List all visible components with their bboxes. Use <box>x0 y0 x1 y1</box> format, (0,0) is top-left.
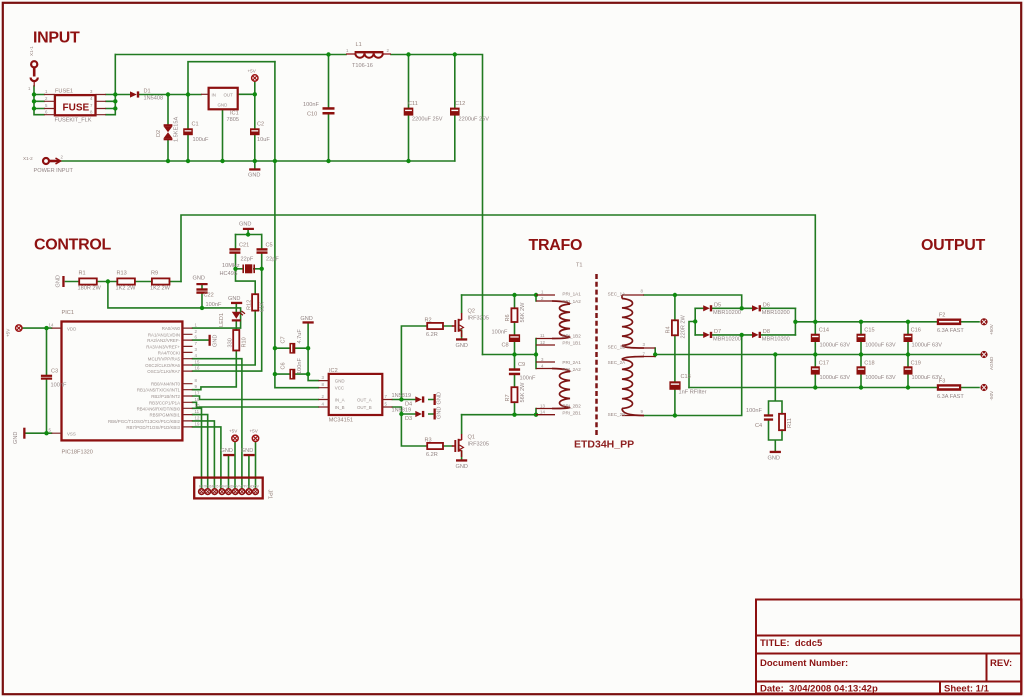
svg-text:220R 2W: 220R 2W <box>681 314 687 338</box>
svg-text:GND: GND <box>335 379 345 384</box>
svg-text:R4: R4 <box>666 326 672 333</box>
svg-text:+50V: +50V <box>989 323 994 335</box>
svg-text:PRI_1A1: PRI_1A1 <box>562 292 581 297</box>
svg-text:RB2/P1B/INT2: RB2/P1B/INT2 <box>151 394 180 399</box>
svg-text:Sheet: 1/1: Sheet: 1/1 <box>944 684 990 695</box>
svg-text:14: 14 <box>540 410 545 415</box>
svg-text:TRAFO: TRAFO <box>529 237 583 254</box>
svg-text:IN_B: IN_B <box>335 405 345 410</box>
svg-text:1K2 2W: 1K2 2W <box>116 285 137 291</box>
svg-text:12: 12 <box>195 415 200 420</box>
svg-text:C11: C11 <box>408 101 418 107</box>
svg-text:C18: C18 <box>864 361 874 367</box>
svg-text:FUSE: FUSE <box>63 103 90 114</box>
svg-text:SEC_1A: SEC_1A <box>608 292 627 297</box>
svg-text:6.3A FAST: 6.3A FAST <box>937 328 964 334</box>
svg-text:56K 2W: 56K 2W <box>520 302 526 323</box>
svg-text:PIC1: PIC1 <box>62 310 74 316</box>
svg-text:VDD: VDD <box>67 326 76 331</box>
svg-text:330: 330 <box>228 338 234 347</box>
svg-text:SEC_2B: SEC_2B <box>608 412 626 417</box>
svg-text:PRI_2B2: PRI_2B2 <box>562 403 581 408</box>
svg-text:1N5819: 1N5819 <box>392 393 412 399</box>
svg-text:AGND: AGND <box>989 356 994 370</box>
svg-text:RB4/AN6/RX/DT/KBI0: RB4/AN6/RX/DT/KBI0 <box>137 406 181 411</box>
svg-text:FUSE1: FUSE1 <box>55 89 73 95</box>
svg-text:IN: IN <box>212 92 216 97</box>
svg-text:100nF: 100nF <box>297 358 303 374</box>
svg-text:RB3/CCP1/P1A: RB3/CCP1/P1A <box>149 400 180 405</box>
svg-text:OUTPUT: OUTPUT <box>921 237 986 254</box>
svg-text:R10: R10 <box>242 337 248 347</box>
svg-text:R9: R9 <box>151 271 158 277</box>
svg-text:19: 19 <box>195 421 200 426</box>
svg-text:C4: C4 <box>755 423 762 429</box>
svg-text:FUSEKIT_FLK: FUSEKIT_FLK <box>55 118 92 124</box>
svg-text:F2: F2 <box>939 313 946 319</box>
svg-text:ETD34H_PP: ETD34H_PP <box>574 439 634 451</box>
svg-text:IC2: IC2 <box>329 368 338 374</box>
svg-text:7805: 7805 <box>227 117 239 123</box>
svg-text:POWER INPUT: POWER INPUT <box>34 168 74 174</box>
svg-text:RB5: RB5 <box>212 485 219 489</box>
svg-text:1N5819: 1N5819 <box>392 408 412 414</box>
svg-text:GND: GND <box>56 275 62 287</box>
svg-text:C22: C22 <box>204 293 214 299</box>
svg-text:GND: GND <box>456 464 468 470</box>
svg-text:GND: GND <box>456 343 468 349</box>
svg-text:Date: 3/04/2008 04:13:42p: Date: 3/04/2008 04:13:42p <box>760 684 878 695</box>
svg-text:OUT_A: OUT_A <box>357 398 372 403</box>
svg-text:4.7uF: 4.7uF <box>297 329 303 344</box>
svg-text:RA4/T0CKI: RA4/T0CKI <box>158 350 180 355</box>
svg-text:GND: GND <box>218 103 228 108</box>
svg-text:22pF: 22pF <box>266 257 279 263</box>
svg-text:1N5408: 1N5408 <box>144 96 164 102</box>
svg-text:MBR10200: MBR10200 <box>713 310 741 316</box>
svg-text:L1: L1 <box>356 42 362 48</box>
svg-text:C10: C10 <box>307 112 317 118</box>
svg-text:16: 16 <box>195 366 200 371</box>
svg-text:10MHz: 10MHz <box>222 263 240 269</box>
svg-text:GND: GND <box>239 222 251 228</box>
svg-text:Document Number:: Document Number: <box>760 658 848 669</box>
svg-text:R7: R7 <box>505 394 511 401</box>
svg-text:PRI_1A2: PRI_1A2 <box>562 299 581 304</box>
svg-text:RB6: RB6 <box>205 485 212 489</box>
svg-text:13: 13 <box>540 403 545 408</box>
svg-text:T106-16: T106-16 <box>352 63 373 69</box>
svg-text:GND: GND <box>768 456 780 462</box>
svg-text:X1-1: X1-1 <box>29 46 34 56</box>
svg-text:22pF: 22pF <box>241 257 254 263</box>
svg-text:RA1/AN1/LVDIN: RA1/AN1/LVDIN <box>148 332 180 337</box>
svg-text:LED1: LED1 <box>219 313 225 327</box>
svg-text:GND: GND <box>437 407 443 419</box>
svg-text:1.5KE15A: 1.5KE15A <box>174 117 180 142</box>
svg-text:R6: R6 <box>505 314 511 321</box>
svg-text:RB6/PGC/T1OSO/T13CKI/P1C/KBI2: RB6/PGC/T1OSO/T13CKI/P1C/KBI2 <box>108 419 181 424</box>
svg-text:RA0/AN0: RA0/AN0 <box>162 326 181 331</box>
svg-text:GND: GND <box>213 335 219 347</box>
svg-text:IC1: IC1 <box>230 111 239 117</box>
svg-text:INPUT: INPUT <box>33 30 80 47</box>
svg-text:REV:: REV: <box>990 658 1012 669</box>
svg-text:C2: C2 <box>257 122 264 128</box>
svg-text:C6: C6 <box>281 362 287 369</box>
svg-text:C16: C16 <box>911 328 921 334</box>
svg-text:VCC: VCC <box>335 386 344 391</box>
svg-text:100nF: 100nF <box>206 302 222 308</box>
svg-text:GND: GND <box>13 432 19 444</box>
svg-text:C19: C19 <box>911 361 921 367</box>
svg-text:GND: GND <box>241 448 253 454</box>
svg-text:C13: C13 <box>681 374 691 380</box>
svg-text:MCLR/VPP/RA5: MCLR/VPP/RA5 <box>148 357 181 362</box>
svg-text:R11: R11 <box>787 418 793 428</box>
svg-text:Q1: Q1 <box>468 435 475 441</box>
svg-text:X1-2: X1-2 <box>23 156 33 161</box>
svg-text:1000uF 63V: 1000uF 63V <box>865 375 896 381</box>
svg-text:6.2R: 6.2R <box>426 452 438 458</box>
svg-text:+5V: +5V <box>253 485 260 489</box>
svg-text:IN_A: IN_A <box>335 398 345 403</box>
svg-text:180R 2W: 180R 2W <box>78 285 102 291</box>
svg-text:1000uF 63V: 1000uF 63V <box>865 342 896 348</box>
svg-text:R2: R2 <box>425 318 432 324</box>
svg-text:RB1/AN5/TX/CK/INT1: RB1/AN5/TX/CK/INT1 <box>137 388 181 393</box>
svg-text:PRI_1B2: PRI_1B2 <box>562 333 581 338</box>
svg-text:+5V: +5V <box>6 328 11 337</box>
svg-text:100uF: 100uF <box>193 137 209 143</box>
svg-text:GND: GND <box>228 296 240 302</box>
svg-text:18: 18 <box>195 397 200 402</box>
svg-text:JP1: JP1 <box>267 490 273 500</box>
svg-text:100nF: 100nF <box>492 330 508 336</box>
svg-text:C3: C3 <box>51 369 58 375</box>
svg-text:C5: C5 <box>266 243 273 249</box>
svg-text:GND: GND <box>437 392 443 404</box>
svg-text:GND: GND <box>248 173 260 179</box>
svg-text:PRI_2B1: PRI_2B1 <box>562 410 581 415</box>
svg-text:1K2 2W: 1K2 2W <box>150 285 171 291</box>
svg-text:GND: GND <box>221 448 233 454</box>
svg-text:1000uF 63V: 1000uF 63V <box>820 375 851 381</box>
svg-text:+5V: +5V <box>229 429 238 434</box>
svg-text:PRI_2A2: PRI_2A2 <box>562 367 581 372</box>
svg-text:T1: T1 <box>576 263 583 269</box>
svg-text:R3: R3 <box>425 438 432 444</box>
svg-text:MBR10200: MBR10200 <box>762 336 790 342</box>
svg-text:C8: C8 <box>502 343 509 349</box>
svg-text:RB7/PGD/T1OSI/P1D/KBI3: RB7/PGD/T1OSI/P1D/KBI3 <box>126 425 180 430</box>
svg-text:C21: C21 <box>239 243 249 249</box>
svg-text:MC34151: MC34151 <box>329 418 353 424</box>
svg-text:SEC_1B: SEC_1B <box>608 345 626 350</box>
svg-text:R12: R12 <box>247 300 253 310</box>
svg-text:11: 11 <box>195 409 200 414</box>
svg-text:6.2R: 6.2R <box>426 332 438 338</box>
svg-text:D7: D7 <box>714 329 721 335</box>
svg-text:100nF: 100nF <box>746 408 762 414</box>
svg-text:100nF: 100nF <box>520 376 536 382</box>
svg-text:HC49S: HC49S <box>220 271 238 277</box>
svg-text:MBR10200: MBR10200 <box>762 310 790 316</box>
svg-text:100nF: 100nF <box>51 383 67 389</box>
svg-text:10uF: 10uF <box>257 137 270 143</box>
svg-text:+5V: +5V <box>248 69 257 74</box>
svg-text:CONTROL: CONTROL <box>34 237 112 254</box>
svg-text:OUT_B: OUT_B <box>357 405 372 410</box>
svg-text:PRI_1B1: PRI_1B1 <box>562 340 581 345</box>
svg-text:12: 12 <box>540 340 545 345</box>
svg-text:15: 15 <box>195 360 200 365</box>
svg-text:17: 17 <box>195 391 200 396</box>
svg-text:C9: C9 <box>518 362 525 368</box>
svg-text:C15: C15 <box>864 328 874 334</box>
svg-text:C17: C17 <box>819 361 829 367</box>
svg-text:PRI_2A1: PRI_2A1 <box>562 360 581 365</box>
svg-text:+5V: +5V <box>250 429 259 434</box>
svg-text:1000uF 63V: 1000uF 63V <box>820 342 851 348</box>
svg-text:C1: C1 <box>192 122 199 128</box>
svg-text:TITLE: dcdc5: TITLE: dcdc5 <box>760 638 823 649</box>
svg-text:1000uF 63V: 1000uF 63V <box>912 342 943 348</box>
svg-text:D3: D3 <box>405 416 412 422</box>
svg-text:R13: R13 <box>117 271 127 277</box>
svg-text:RA3/AN3/VREF+: RA3/AN3/VREF+ <box>146 344 180 349</box>
svg-text:MBR10200: MBR10200 <box>713 336 741 342</box>
svg-text:IRF3205: IRF3205 <box>468 316 489 322</box>
svg-text:IRF3205: IRF3205 <box>468 442 489 448</box>
svg-text:RB5/PGM/KBI1: RB5/PGM/KBI1 <box>149 413 180 418</box>
svg-text:C14: C14 <box>819 328 829 334</box>
svg-text:14: 14 <box>49 323 54 328</box>
svg-text:SEC_2A: SEC_2A <box>608 360 627 365</box>
svg-text:C7: C7 <box>281 336 287 343</box>
svg-text:100nF: 100nF <box>303 102 319 108</box>
svg-text:D2: D2 <box>156 130 162 137</box>
svg-text:11: 11 <box>540 333 545 338</box>
svg-text:61K: 61K <box>260 302 266 312</box>
svg-text:D5: D5 <box>714 303 721 309</box>
svg-text:PIC18F1320: PIC18F1320 <box>62 450 93 456</box>
svg-text:OSC2/CLKO/RA6: OSC2/CLKO/RA6 <box>145 363 180 368</box>
svg-text:2200uF 25V: 2200uF 25V <box>412 117 443 123</box>
svg-text:1000uF 63V: 1000uF 63V <box>912 375 943 381</box>
svg-text:VSS: VSS <box>67 431 76 436</box>
svg-text:Q2: Q2 <box>468 309 475 315</box>
svg-text:D1: D1 <box>144 89 151 95</box>
svg-text:6.3A FAST: 6.3A FAST <box>937 394 964 400</box>
svg-text:GND: GND <box>193 276 205 282</box>
svg-text:RB0/AN4/INT0: RB0/AN4/INT0 <box>151 382 181 387</box>
svg-text:2200uF 25V: 2200uF 25V <box>459 117 490 123</box>
svg-text:-50V: -50V <box>989 390 994 401</box>
svg-text:RA2/AN2/VREF-: RA2/AN2/VREF- <box>147 338 180 343</box>
svg-text:C12: C12 <box>455 101 465 107</box>
svg-text:D6: D6 <box>763 303 770 309</box>
svg-text:R1: R1 <box>79 271 86 277</box>
svg-text:D8: D8 <box>763 329 770 335</box>
svg-text:OUT: OUT <box>224 92 234 97</box>
svg-text:56K 2W: 56K 2W <box>520 382 526 403</box>
svg-text:OSC1/CLKI/RA7: OSC1/CLKI/RA7 <box>147 369 180 374</box>
svg-text:1nF RFIlter: 1nF RFIlter <box>679 390 707 396</box>
svg-text:GND: GND <box>300 316 312 322</box>
svg-text:10: 10 <box>195 403 200 408</box>
svg-text:F3: F3 <box>939 378 946 384</box>
